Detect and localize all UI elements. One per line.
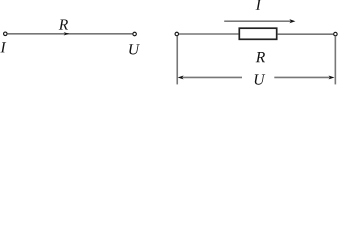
node terminal left (left element) xyxy=(4,32,8,36)
label R (left element) xyxy=(59,19,68,29)
node terminal right (right element) xyxy=(334,32,338,36)
label U (voltage across resistor) xyxy=(255,74,266,84)
extension line right xyxy=(334,36,336,84)
current arrow I head xyxy=(289,19,295,23)
node terminal right (left element) xyxy=(133,32,137,36)
current arrow I line xyxy=(224,20,291,22)
label I (left element) xyxy=(0,42,6,52)
wire xyxy=(8,33,133,35)
wire from resistor to right node xyxy=(278,33,334,35)
dimension line right segment xyxy=(274,76,330,78)
dimension line left segment xyxy=(182,76,242,78)
extension line left xyxy=(176,36,178,85)
current direction arrowhead on wire xyxy=(64,32,70,35)
label I (right element) xyxy=(256,0,262,10)
label R (right element) xyxy=(256,52,265,62)
resistor R body xyxy=(239,28,276,39)
node terminal left (right element) xyxy=(175,32,179,36)
wire from left node to resistor xyxy=(179,33,238,35)
dimension arrowhead left xyxy=(178,76,184,80)
dimension arrowhead right xyxy=(329,76,335,80)
label U (left element) xyxy=(129,44,140,54)
